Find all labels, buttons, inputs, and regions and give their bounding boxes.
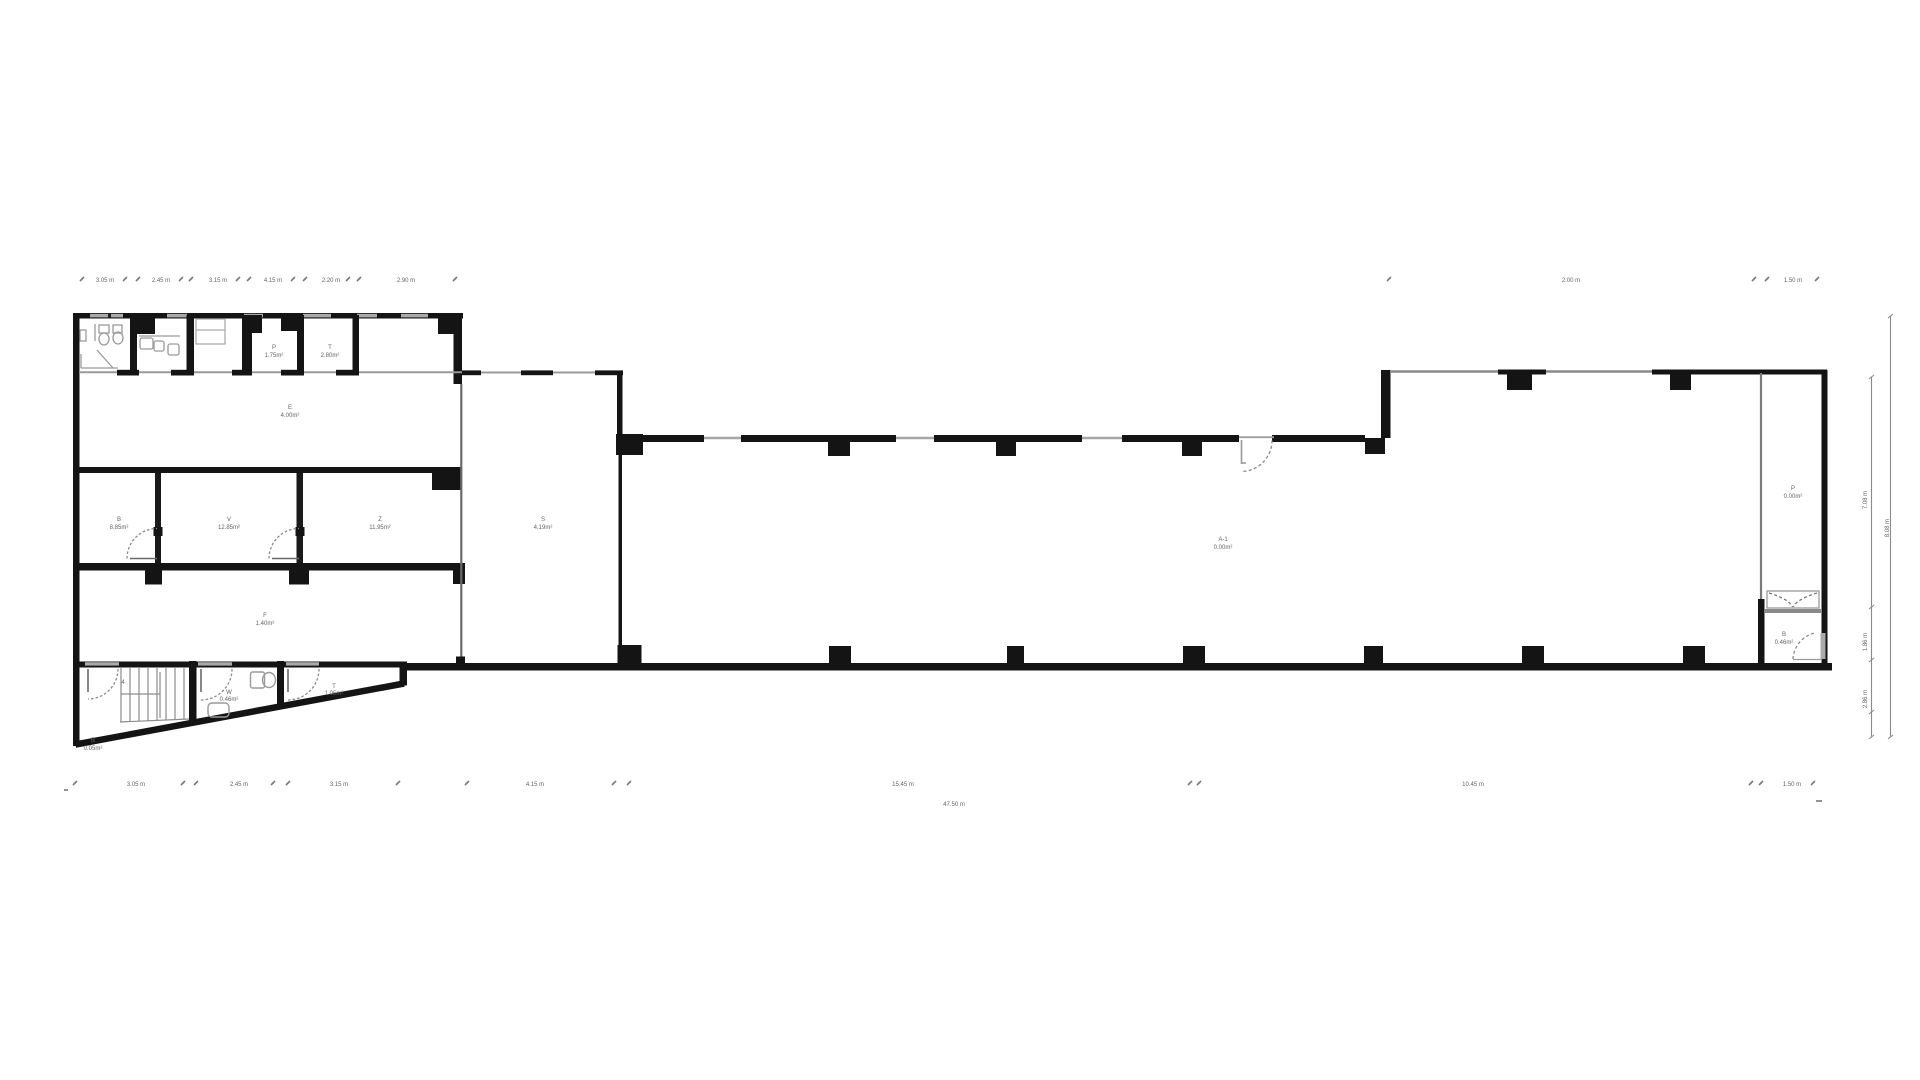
svg-text:B: B [117, 517, 121, 523]
partition wall L2 [297, 473, 304, 564]
svg-text:A-1: A-1 [1218, 537, 1228, 543]
door arc bathroom WC [201, 669, 232, 700]
svg-text:2.00 m: 2.00 m [1562, 278, 1580, 284]
top strip bottom line (thin) [79, 371, 462, 373]
top dimension row [96, 278, 1802, 284]
small pier bottom of vestibule left line [456, 657, 465, 669]
svg-text:11.95m²: 11.95m² [369, 525, 391, 531]
svg-text:2.86 m: 2.86 m [1863, 690, 1869, 708]
svg-text:0.00m²: 0.00m² [1784, 494, 1803, 500]
svg-text:W: W [226, 690, 232, 696]
svg-text:1.75m²: 1.75m² [265, 353, 284, 359]
svg-text:V: V [227, 517, 231, 523]
upper-right columns [1507, 373, 1691, 390]
svg-text:8.85m²: 8.85m² [110, 525, 129, 531]
pier at wall T1 [130, 315, 155, 334]
corridor F bottom wall [77, 662, 407, 668]
partition wall T2 [187, 315, 195, 373]
svg-text:47.50 m: 47.50 m [943, 802, 965, 808]
pier at wall T4 [281, 314, 302, 331]
right dimension texts [1863, 491, 1891, 708]
svg-text:4.19m²: 4.19m² [534, 525, 553, 531]
right dimension line inner [1869, 375, 1874, 739]
partition wall L1 [155, 473, 161, 564]
pier bottom of vestibule right wall [618, 645, 642, 668]
fixtures room 1 (top-left wc) [80, 324, 123, 368]
vestibule top line [462, 372, 622, 374]
pier right end of wall y563 [453, 563, 465, 584]
right corridor left thin wall [1760, 373, 1762, 599]
top dimension ticks [80, 277, 1819, 281]
svg-text:3.05 m: 3.05 m [96, 278, 114, 284]
svg-text:0.05m²: 0.05m² [84, 746, 103, 752]
svg-text:2.90 m: 2.90 m [397, 278, 415, 284]
svg-text:15.45 m: 15.45 m [892, 782, 914, 788]
svg-text:B: B [91, 738, 95, 744]
svg-text:2.45 m: 2.45 m [230, 782, 248, 788]
svg-text:1.40m²: 1.40m² [256, 621, 275, 627]
hall top wall window lines [704, 437, 1122, 439]
bottom dimension ticks [64, 781, 1822, 801]
outer wall left [73, 313, 80, 746]
vestibule right wall upper [617, 373, 623, 434]
svg-text:4.15 m: 4.15 m [526, 782, 544, 788]
bottom-right room door arc [1793, 633, 1826, 660]
svg-text:12.85m²: 12.85m² [218, 525, 240, 531]
svg-text:0.46m²: 0.46m² [1775, 640, 1794, 646]
hall top wall segments [643, 435, 1365, 442]
pier top of vestibule right wall [616, 434, 643, 455]
svg-text:3.15 m: 3.15 m [209, 278, 227, 284]
partition wall T1 [130, 315, 137, 373]
double door dashed leaves [1769, 593, 1817, 607]
pier below wall at x289 [289, 571, 309, 585]
svg-text:B: B [1782, 632, 1786, 638]
door arc bathroom right room [288, 669, 319, 700]
pier below wall at x145 [145, 571, 162, 585]
right wall of block upper part [454, 315, 463, 384]
partition wall T5 [353, 315, 360, 373]
bottom dimension row [127, 782, 1801, 808]
svg-text:E: E [288, 405, 292, 411]
pier at wall T3 [242, 315, 262, 333]
partition wall T4 [297, 315, 304, 373]
partition wall T3 [242, 315, 252, 373]
door arc room L1 [127, 529, 157, 559]
svg-text:1.86 m: 1.86 m [1863, 633, 1869, 651]
door arc room L2 [269, 529, 299, 559]
svg-text:1.05m²: 1.05m² [325, 691, 344, 697]
hinge block L2 [296, 527, 305, 536]
outer wall top (top-left block) [73, 313, 463, 319]
right corridor partition threshold [1765, 609, 1821, 613]
pier right end of E wall [432, 467, 462, 490]
hall bottom columns [829, 646, 1705, 663]
stair room right wall [189, 661, 197, 724]
svg-text:S: S [541, 517, 545, 523]
hall top columns [828, 442, 1202, 456]
svg-text:P: P [272, 345, 276, 351]
sink in WC room [208, 703, 229, 717]
svg-text:0.00m²: 0.00m² [1214, 545, 1233, 551]
hall top door arc [1241, 440, 1272, 472]
fixtures room 3 (counter) [196, 319, 225, 344]
svg-text:0.46m²: 0.46m² [220, 697, 239, 703]
outer wall diagonal bottom-left [76, 684, 405, 745]
svg-text:3.05 m: 3.05 m [127, 782, 145, 788]
toilet in WC room [251, 672, 276, 688]
step wall x1381 [1381, 370, 1391, 438]
svg-text:Z: Z [378, 517, 382, 523]
stair treads [120, 667, 189, 722]
wall below rooms L (y563) [77, 563, 465, 571]
hall top door threshold [1239, 436, 1274, 438]
window segments in top wall [90, 314, 428, 318]
svg-text:T: T [328, 345, 332, 351]
vestibule right wall [619, 455, 623, 645]
outer wall right [1822, 370, 1828, 668]
svg-text:10.45 m: 10.45 m [1462, 782, 1484, 788]
svg-text:3.15 m: 3.15 m [330, 782, 348, 788]
vestibule top wall segments [462, 370, 623, 375]
hall bottom wall [404, 663, 1832, 671]
double door frame in right corridor [1767, 591, 1819, 608]
svg-text:8.08 m: 8.08 m [1885, 519, 1891, 537]
door arc bathroom B1 [88, 669, 118, 699]
svg-text:T: T [332, 684, 336, 690]
svg-text:2.80m²: 2.80m² [321, 353, 340, 359]
right dimension line outer [1888, 314, 1893, 739]
fixtures room 2 (sinks) [139, 336, 180, 355]
step wall at right end of bathroom strip [400, 662, 408, 686]
wc room right wall [277, 661, 284, 707]
hinge block L1 [154, 527, 163, 536]
svg-text:P: P [1791, 486, 1795, 492]
wall below room E [77, 467, 462, 473]
svg-text:7.08 m: 7.08 m [1863, 491, 1869, 509]
pier at step bottom [1365, 438, 1385, 454]
corner pier top-right of block [438, 315, 462, 334]
right corridor left wall lower thick [1758, 599, 1765, 668]
svg-text:2.20 m: 2.20 m [322, 278, 340, 284]
svg-text:4.15 m: 4.15 m [264, 278, 282, 284]
svg-text:2.45 m: 2.45 m [152, 278, 170, 284]
central vestibule left thin wall [460, 384, 462, 657]
room labels [84, 345, 1803, 752]
upper-right top line [1391, 370, 1824, 372]
door openings (gray) in corridor bottom wall [85, 662, 319, 665]
svg-text:F: F [263, 613, 267, 619]
top strip bottom wall segments [117, 370, 359, 376]
svg-text:1.50 m: 1.50 m [1784, 278, 1802, 284]
svg-text:1.50 m: 1.50 m [1783, 782, 1801, 788]
upper-right top wall segments [1498, 370, 1827, 375]
svg-text:4.00m²: 4.00m² [281, 413, 300, 419]
